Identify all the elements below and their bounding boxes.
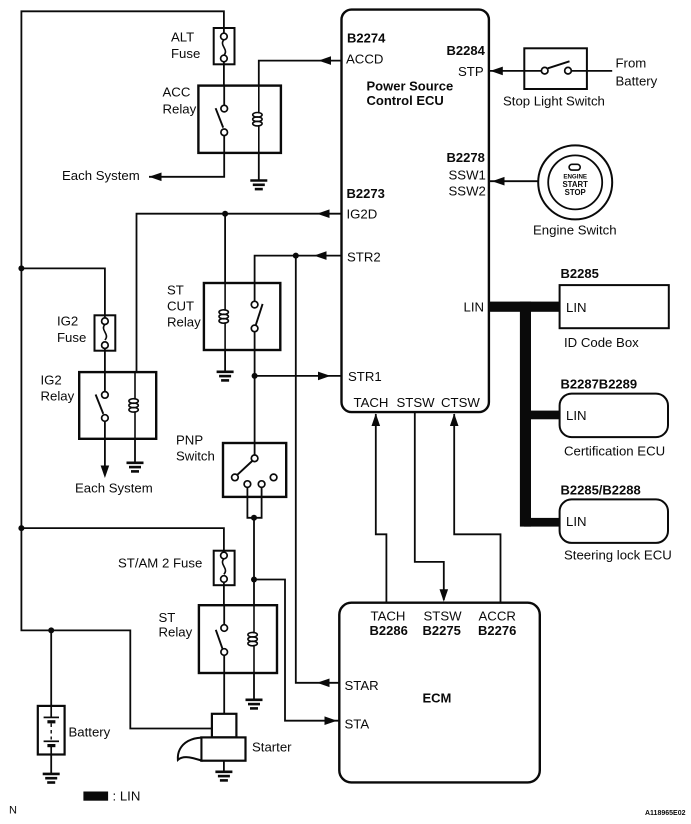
svg-text:B2274: B2274	[347, 31, 386, 46]
svg-text:Battery: Battery	[69, 725, 111, 740]
svg-text:STP: STP	[458, 64, 484, 79]
svg-text:ST: ST	[159, 610, 176, 625]
svg-text:IG2D: IG2D	[347, 206, 378, 221]
svg-text:B2285/B2288: B2285/B2288	[561, 482, 641, 497]
svg-text:TACH: TACH	[371, 609, 406, 624]
svg-text:ST/AM 2 Fuse: ST/AM 2 Fuse	[118, 556, 202, 571]
svg-text:SSW2: SSW2	[449, 184, 486, 199]
svg-text:Each System: Each System	[62, 168, 140, 183]
svg-text:ACCR: ACCR	[479, 609, 516, 624]
svg-text:Starter: Starter	[252, 740, 292, 755]
svg-text:ACC: ACC	[163, 84, 191, 99]
svg-text:B2276: B2276	[478, 623, 516, 638]
svg-text:B2278: B2278	[447, 150, 485, 165]
svg-text:STA: STA	[345, 717, 370, 732]
svg-text:IG2: IG2	[57, 314, 78, 329]
svg-text:Relay: Relay	[167, 315, 201, 330]
svg-text:B2275: B2275	[423, 623, 461, 638]
svg-text:B2273: B2273	[347, 186, 385, 201]
svg-text:Fuse: Fuse	[57, 330, 86, 345]
svg-text:Control ECU: Control ECU	[367, 93, 444, 108]
svg-text:B2287B2289: B2287B2289	[561, 377, 638, 392]
svg-text:CUT: CUT	[167, 299, 194, 314]
svg-text:STR1: STR1	[348, 369, 382, 384]
svg-text:STR2: STR2	[347, 250, 381, 265]
svg-text:LIN: LIN	[566, 514, 587, 529]
svg-text:Certification ECU: Certification ECU	[564, 444, 665, 459]
svg-text:Power Source: Power Source	[367, 79, 454, 94]
svg-text:Fuse: Fuse	[171, 46, 200, 61]
svg-text:STAR: STAR	[345, 678, 379, 693]
svg-text:A118965E02: A118965E02	[645, 810, 686, 817]
svg-text:Battery: Battery	[616, 74, 658, 89]
svg-text:LIN: LIN	[566, 408, 587, 423]
svg-text:Relay: Relay	[163, 102, 197, 117]
svg-text:From: From	[616, 56, 647, 71]
svg-text:SSW1: SSW1	[449, 168, 486, 183]
svg-text:ALT: ALT	[171, 29, 194, 44]
svg-text:CTSW: CTSW	[441, 395, 480, 410]
svg-text:Stop Light Switch: Stop Light Switch	[503, 93, 605, 108]
svg-text:Steering lock ECU: Steering lock ECU	[564, 548, 672, 563]
svg-text:ECM: ECM	[423, 691, 452, 706]
svg-text:Relay: Relay	[159, 625, 193, 640]
svg-text:ACCD: ACCD	[346, 52, 383, 67]
svg-text:LIN: LIN	[464, 300, 485, 315]
svg-text:STSW: STSW	[424, 609, 463, 624]
svg-text:: LIN: : LIN	[113, 789, 141, 804]
svg-text:LIN: LIN	[566, 300, 587, 315]
svg-text:Each System: Each System	[75, 481, 153, 496]
svg-text:STSW: STSW	[397, 395, 436, 410]
svg-text:ST: ST	[167, 283, 184, 298]
svg-text:Switch: Switch	[176, 449, 215, 464]
svg-text:ID Code Box: ID Code Box	[564, 335, 639, 350]
svg-text:PNP: PNP	[176, 433, 203, 448]
svg-text:Engine Switch: Engine Switch	[533, 223, 617, 238]
svg-text:STOP: STOP	[565, 188, 586, 197]
svg-text:B2284: B2284	[447, 43, 486, 58]
svg-text:N: N	[9, 805, 17, 817]
svg-text:TACH: TACH	[354, 395, 389, 410]
svg-text:Relay: Relay	[41, 389, 75, 404]
svg-text:IG2: IG2	[41, 373, 62, 388]
svg-text:B2286: B2286	[370, 623, 408, 638]
svg-text:B2285: B2285	[561, 266, 599, 281]
